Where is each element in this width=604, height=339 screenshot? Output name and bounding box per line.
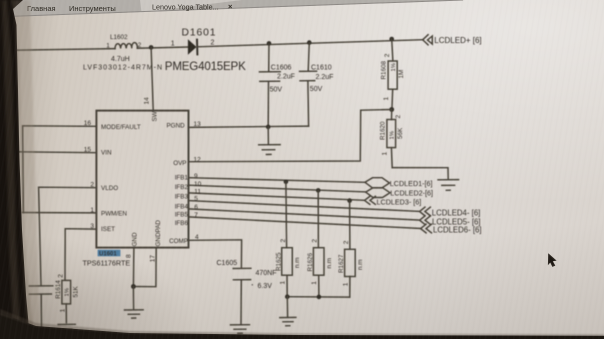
svg-text:50V: 50V bbox=[270, 86, 283, 93]
svg-text:LCDLED4- [6]: LCDLED4- [6] bbox=[432, 209, 481, 218]
svg-text:2: 2 bbox=[395, 115, 402, 119]
wire GND pin 8 bbox=[125, 248, 134, 287]
resistor R1614 bbox=[55, 274, 80, 323]
svg-text:C1605: C1605 bbox=[217, 260, 238, 267]
document tab Lenovo Yoga Table bbox=[152, 2, 233, 12]
svg-text:IFB5: IFB5 bbox=[175, 211, 189, 218]
wire MODE/FAULT bbox=[23, 126, 97, 213]
svg-text:50V: 50V bbox=[310, 86, 323, 93]
svg-text:LCDLED3- [6]: LCDLED3- [6] bbox=[377, 197, 422, 206]
wire COMP to C1605 bbox=[189, 240, 242, 268]
svg-text:C1606: C1606 bbox=[271, 65, 292, 72]
svg-text:1%: 1% bbox=[390, 131, 396, 139]
op-amp U1601 IC body TPS61176RTE bbox=[96, 111, 188, 248]
wire input to L1602 bbox=[16, 49, 115, 51]
svg-text:LCDLED1-[6]: LCDLED1-[6] bbox=[390, 179, 433, 188]
svg-text:×: × bbox=[228, 2, 233, 11]
svg-text:470NF: 470NF bbox=[256, 270, 277, 277]
svg-text:VIN: VIN bbox=[101, 149, 112, 156]
svg-text:13: 13 bbox=[194, 121, 202, 128]
svg-text:12: 12 bbox=[194, 157, 202, 164]
wire SW pin 14 vertical bbox=[143, 47, 153, 110]
capacitor at VLDO bbox=[29, 286, 53, 329]
ground PGND bbox=[259, 127, 280, 155]
svg-text:n.m: n.m bbox=[326, 258, 333, 269]
svg-text:2: 2 bbox=[57, 274, 64, 278]
svg-text:IFB1: IFB1 bbox=[175, 174, 189, 181]
svg-text:17: 17 bbox=[150, 255, 157, 263]
svg-text:1%: 1% bbox=[64, 288, 70, 296]
pin numbers left side bbox=[84, 120, 95, 230]
menu item Главная bbox=[27, 4, 56, 13]
mouse cursor bbox=[548, 253, 557, 267]
ground GND/GNDPAD bbox=[125, 287, 144, 319]
ground VLDO cap bbox=[31, 330, 52, 335]
node SW junction bbox=[149, 45, 154, 50]
svg-text:R1627: R1627 bbox=[338, 254, 345, 273]
svg-text:SW: SW bbox=[152, 111, 159, 121]
bezel shadow on page bbox=[14, 0, 40, 339]
svg-text:2: 2 bbox=[343, 240, 350, 244]
svg-text:1%: 1% bbox=[391, 63, 397, 71]
pin numbers right side bbox=[194, 121, 202, 241]
svg-text:4: 4 bbox=[195, 234, 199, 241]
left bezel bbox=[0, 0, 34, 339]
svg-text:2: 2 bbox=[211, 40, 215, 47]
svg-text:OVP: OVP bbox=[173, 160, 186, 167]
svg-text:2.2uF: 2.2uF bbox=[277, 74, 295, 81]
wire ISET bbox=[65, 229, 96, 281]
resistor R1625 n.m bbox=[275, 182, 301, 297]
svg-text:LCDLED6- [6]: LCDLED6- [6] bbox=[433, 226, 482, 235]
svg-text:U1601: U1601 bbox=[99, 251, 117, 257]
svg-text:n.m: n.m bbox=[357, 260, 364, 271]
ground at R1620 bbox=[438, 180, 459, 191]
svg-text:51K: 51K bbox=[72, 285, 79, 297]
wire PGND ground rail bbox=[189, 126, 309, 127]
wire IFB3 bbox=[189, 193, 365, 200]
node C1610 tap bbox=[307, 40, 312, 45]
svg-text:1: 1 bbox=[383, 97, 390, 101]
node rail mid bbox=[317, 295, 322, 300]
wire n.m resistors ground rail bbox=[287, 296, 350, 298]
wire IFB2 bbox=[189, 185, 366, 192]
U1601 reference highlighted bbox=[83, 250, 131, 268]
port LCDLED6- bbox=[421, 224, 482, 235]
node R1625 tap bbox=[284, 180, 289, 185]
svg-text:TPS61176RTE: TPS61176RTE bbox=[83, 259, 131, 268]
wire IFB6 bbox=[189, 217, 421, 229]
svg-text:IFB4: IFB4 bbox=[175, 204, 189, 211]
svg-text:2.2uF: 2.2uF bbox=[316, 74, 334, 81]
svg-text:6: 6 bbox=[194, 204, 198, 211]
node GND junction bbox=[131, 284, 136, 289]
resistor R1627 n.m bbox=[338, 201, 364, 298]
svg-text:R1620: R1620 bbox=[379, 121, 386, 140]
svg-text:IFB2: IFB2 bbox=[175, 184, 189, 191]
svg-text:Lenovo Yoga Table...: Lenovo Yoga Table... bbox=[152, 3, 219, 12]
svg-text:11: 11 bbox=[194, 188, 201, 195]
svg-text:MODE/FAULT: MODE/FAULT bbox=[101, 124, 141, 131]
svg-text:Главная: Главная bbox=[27, 4, 56, 13]
svg-text:L1602: L1602 bbox=[110, 34, 128, 41]
wire IFB4 bbox=[189, 201, 420, 212]
svg-text:56K: 56K bbox=[397, 127, 404, 139]
svg-text:R1625: R1625 bbox=[275, 252, 282, 271]
diode D1601 bbox=[165, 27, 246, 73]
svg-text:GNDPAD: GNDPAD bbox=[155, 220, 162, 247]
svg-text:LVF303012-4R7M-N: LVF303012-4R7M-N bbox=[83, 64, 162, 71]
node PGND rail junction bbox=[266, 125, 271, 130]
wire IFB5 bbox=[189, 209, 420, 220]
svg-text:R1608: R1608 bbox=[381, 60, 388, 79]
bottom dark strip bbox=[0, 309, 604, 339]
ground C1605 bbox=[231, 325, 250, 334]
svg-text:4.7uH: 4.7uH bbox=[111, 56, 130, 63]
svg-text:10: 10 bbox=[194, 181, 202, 188]
svg-text:D1601: D1601 bbox=[182, 27, 217, 38]
svg-text:Инструменты: Инструменты bbox=[69, 4, 116, 13]
node rail left bbox=[285, 294, 290, 299]
svg-text:1: 1 bbox=[342, 282, 349, 286]
svg-text:1: 1 bbox=[106, 42, 110, 49]
svg-text:IFB3: IFB3 bbox=[175, 193, 189, 200]
resistor R1608 bbox=[381, 39, 406, 110]
svg-text:14: 14 bbox=[143, 97, 150, 105]
node R1627 tap bbox=[347, 198, 352, 203]
wire PWM/EN bbox=[23, 212, 97, 214]
wire IFB1 bbox=[189, 178, 366, 183]
wire VLDO bbox=[39, 187, 97, 285]
resistor R1620 bbox=[379, 110, 404, 168]
capacitor C1610 bbox=[300, 43, 334, 127]
wire L1602 to D1601 bbox=[137, 47, 188, 48]
svg-text:LCDLED2-[6]: LCDLED2-[6] bbox=[390, 189, 433, 198]
menu item Инструменты bbox=[69, 4, 116, 13]
node R1608 tap bbox=[389, 37, 394, 42]
node OVP feedback junction bbox=[389, 107, 394, 112]
wire GNDPAD pin 17 bbox=[133, 248, 156, 287]
svg-text:9: 9 bbox=[194, 173, 198, 180]
capacitor C1606 bbox=[260, 43, 295, 126]
svg-text:VLDO: VLDO bbox=[101, 185, 118, 192]
port LCDLED1- bbox=[365, 178, 433, 189]
port LCDLED2- bbox=[366, 188, 433, 198]
port LCDLED5- bbox=[420, 216, 481, 227]
ground R1614 bbox=[58, 324, 75, 333]
svg-text:6.3V: 6.3V bbox=[258, 283, 273, 290]
svg-text:GND: GND bbox=[131, 232, 138, 246]
port LCDLED+ bbox=[423, 35, 482, 45]
wire OVP to divider bbox=[189, 110, 392, 162]
svg-text:IFB6: IFB6 bbox=[175, 220, 189, 227]
wire R1620 to ground bbox=[392, 168, 448, 179]
wire VIN bbox=[7, 152, 96, 153]
node C1606 tap bbox=[267, 41, 272, 46]
svg-text:1M: 1M bbox=[398, 70, 405, 79]
svg-text:1: 1 bbox=[171, 41, 175, 48]
svg-text:8: 8 bbox=[125, 254, 132, 258]
svg-text:7: 7 bbox=[194, 212, 198, 219]
svg-text:PMEG4015EPK: PMEG4015EPK bbox=[165, 60, 246, 73]
svg-text:COMP: COMP bbox=[169, 238, 188, 245]
svg-text:R1614: R1614 bbox=[55, 280, 62, 299]
svg-text:1: 1 bbox=[311, 281, 318, 285]
svg-text:2: 2 bbox=[280, 239, 287, 243]
svg-text:2: 2 bbox=[312, 239, 319, 243]
svg-text:R1626: R1626 bbox=[307, 252, 314, 271]
svg-text:5: 5 bbox=[194, 196, 198, 203]
inductor L1602 bbox=[83, 34, 162, 72]
svg-text:n.m: n.m bbox=[294, 258, 301, 269]
svg-text:1: 1 bbox=[280, 281, 287, 285]
resistor R1626 n.m bbox=[307, 190, 333, 297]
svg-text:ISET: ISET bbox=[101, 226, 115, 233]
svg-text:PGND: PGND bbox=[166, 122, 185, 129]
svg-text:LCDLED+ [6]: LCDLED+ [6] bbox=[434, 36, 481, 45]
svg-text:C1610: C1610 bbox=[311, 64, 332, 71]
node R1626 tap bbox=[316, 188, 321, 193]
port LCDLED3- bbox=[365, 196, 422, 206]
ground n.m rail bbox=[280, 297, 296, 326]
svg-text:2: 2 bbox=[384, 53, 391, 57]
svg-text:PWM/EN: PWM/EN bbox=[101, 211, 127, 218]
svg-text:1: 1 bbox=[60, 308, 67, 312]
capacitor C1605 bbox=[217, 260, 277, 324]
port LCDLED4- bbox=[420, 207, 481, 218]
wire main top rail bbox=[197, 40, 423, 47]
toolbar band bbox=[0, 0, 465, 17]
svg-text:1: 1 bbox=[382, 152, 389, 156]
